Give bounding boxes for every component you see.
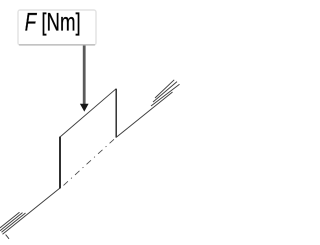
wire: upper-right break echo line 2: [153, 82, 177, 102]
left crank web vertical: [59, 137, 61, 189]
wire: lower-left break echo line 2: [0, 213, 23, 231]
wire: lower-left break echo line 3: [0, 212, 20, 228]
svg-text:F [Nm]: F [Nm]: [25, 8, 81, 36]
label text F [Nm]: [25, 8, 81, 36]
wire: shaft axis lower-left segment: [3, 188, 61, 234]
crank pin diagonal (top): [60, 89, 116, 137]
wire: shaft axis upper-right segment: [116, 92, 172, 137]
wire: lower-left break echo line 1: [2, 213, 26, 232]
wire: lower-left end tick: [6, 235, 9, 239]
wire: upper-right break echo line 1: [151, 84, 180, 106]
label box F [Nm]: [18, 10, 96, 45]
right crank web vertical: [115, 89, 117, 138]
force arrow shaft: [83, 46, 86, 106]
centerline (dash-dot axis through crank): [64, 139, 115, 186]
force arrow head: [80, 104, 89, 112]
wire: upper-right break echo line 3: [155, 80, 174, 98]
